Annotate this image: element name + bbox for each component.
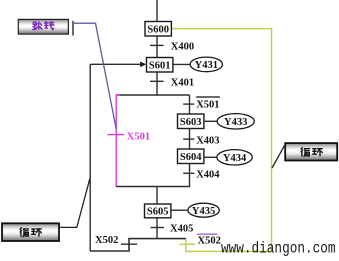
transition X502: [95, 235, 137, 246]
jump connector tick: [72, 21, 74, 36]
svg-text:S601: S601: [149, 60, 171, 71]
svg-text:Y435: Y435: [192, 206, 215, 217]
glyph 转: [44, 21, 53, 29]
svg-text:www.diangon.com: www.diangon.com: [221, 240, 336, 258]
wire left branch (magenta): [116, 95, 120, 187]
jump pointer line (blue): [74, 23, 116, 129]
svg-text:X404: X404: [196, 169, 220, 180]
transition X405: [151, 224, 194, 235]
wire top into S600: [156, 0, 158, 22]
wire S605 down: [156, 218, 158, 239]
transition X403: [183, 135, 219, 146]
svg-text:X405: X405: [170, 224, 193, 235]
wire left loop vertical: [89, 64, 91, 251]
svg-text:X502: X502: [95, 235, 118, 246]
step S605: [145, 204, 171, 218]
loop pointer right: [272, 145, 285, 168]
svg-text:S605: S605: [147, 207, 169, 218]
output Y435: [171, 203, 219, 217]
svg-text:X401: X401: [171, 77, 194, 88]
svg-text:S600: S600: [147, 24, 169, 35]
svg-text:S604: S604: [180, 152, 202, 163]
loop connector left: [59, 178, 90, 227]
svg-text:S603: S603: [180, 117, 202, 128]
wire arrow into S601 from left loop: [90, 62, 146, 68]
glyph 跳: [33, 22, 42, 30]
loop label bar right (循环): [285, 143, 337, 160]
transition X401: [150, 77, 194, 88]
svg-text:X403: X403: [196, 135, 219, 146]
wire S600 to S601: [156, 36, 158, 58]
transition /X502 tick on yellow step: [180, 243, 196, 245]
svg-text:X502: X502: [198, 235, 221, 246]
branch convergence line: [116, 186, 190, 188]
glyph 环: [32, 229, 42, 236]
glyph 循: [20, 228, 29, 237]
output Y433: [204, 114, 254, 129]
step S601: [147, 58, 173, 73]
wire join to S605: [156, 187, 158, 205]
svg-text:X501: X501: [127, 131, 150, 142]
step S604: [178, 149, 204, 164]
output Y434: [204, 150, 252, 165]
svg-text:Y433: Y433: [224, 117, 247, 128]
glyph 环: [313, 149, 323, 156]
glyph 循: [301, 148, 310, 157]
jump label bar (跳转): [18, 19, 68, 34]
wire right branch vertical: [189, 95, 191, 187]
branch divergence line: [116, 94, 189, 96]
svg-text:Y431: Y431: [195, 60, 218, 71]
bottom bus wire: [90, 239, 186, 251]
transition X404: [183, 169, 220, 180]
step S603: [178, 114, 204, 129]
wire yellow loop (S600 right, down right side, bottom return): [172, 29, 272, 252]
transition X501 (magenta): [107, 131, 150, 142]
svg-text:X501: X501: [196, 100, 219, 111]
loop label bar left (循环): [2, 223, 59, 241]
svg-text:X400: X400: [171, 41, 194, 52]
transition /X501: [183, 97, 220, 111]
svg-text:Y434: Y434: [223, 153, 247, 164]
wire S601 to branch: [156, 72, 158, 96]
output Y431: [173, 57, 223, 72]
step S600: [145, 22, 171, 37]
transition /X502 label: [197, 234, 221, 246]
transition X400: [150, 41, 194, 52]
